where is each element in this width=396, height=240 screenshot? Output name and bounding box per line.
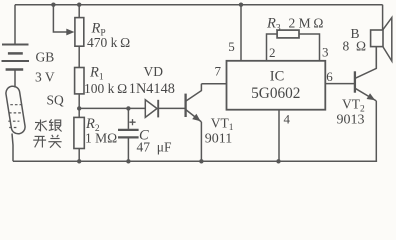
wire capacitor top lead bbox=[127, 108, 129, 128]
label kaiguan (switch) hand-drawn bbox=[33, 135, 61, 148]
wire VT2 emitter to bottom rail bbox=[375, 101, 377, 161]
svg-text:2: 2 bbox=[269, 45, 276, 60]
svg-text:R3: R3 bbox=[266, 15, 281, 33]
svg-text:5G0602: 5G0602 bbox=[251, 85, 300, 102]
transistor VT1 bbox=[186, 84, 202, 122]
wire left drop to battery bbox=[14, 5, 16, 45]
svg-text:2 M Ω: 2 M Ω bbox=[289, 15, 324, 30]
wire speaker to VT2 collector bbox=[375, 47, 377, 69]
svg-text:5: 5 bbox=[228, 39, 235, 54]
capacitor C plus sign bbox=[129, 119, 135, 125]
node A junction R1 R2 VD bbox=[77, 106, 81, 110]
node VT1 emitter ground bbox=[199, 159, 203, 163]
resistor R1 bbox=[75, 68, 84, 94]
svg-text:100 k Ω: 100 k Ω bbox=[84, 81, 127, 96]
capacitor C bbox=[118, 130, 139, 138]
svg-text:7: 7 bbox=[215, 64, 222, 79]
node pin 5 top rail bbox=[239, 2, 243, 6]
op-amp IC 5G0602 bbox=[227, 61, 326, 110]
wire top rail right drop to speaker bbox=[382, 5, 384, 30]
resistor R3 bbox=[277, 30, 299, 38]
wire R1 to node A bbox=[78, 94, 80, 109]
svg-text:R1: R1 bbox=[89, 65, 104, 83]
svg-text:3 V: 3 V bbox=[35, 70, 55, 85]
svg-text:47 μF: 47 μF bbox=[137, 140, 172, 155]
svg-text:3: 3 bbox=[322, 45, 329, 60]
svg-text:9013: 9013 bbox=[337, 112, 365, 127]
wire wiper of RP bbox=[53, 5, 67, 32]
wire VT1 emitter to bottom rail bbox=[200, 122, 202, 161]
battery GB bbox=[2, 45, 30, 70]
svg-text:VD: VD bbox=[144, 64, 164, 79]
wire RP to R1 bbox=[78, 46, 80, 67]
wire bottom rail bbox=[13, 160, 377, 162]
svg-text:4: 4 bbox=[284, 112, 291, 127]
wire top rail bbox=[15, 4, 383, 6]
wire node A to diode bbox=[79, 107, 145, 109]
wire R2 to bottom rail bbox=[78, 149, 80, 162]
mercury switch SQ bbox=[5, 85, 26, 135]
wire mercury switch to bottom rail bbox=[12, 134, 13, 162]
wire IC pin 5 to top rail bbox=[240, 5, 242, 61]
wire IC pin 2 to R3 bbox=[267, 34, 278, 61]
node R2 ground bbox=[77, 159, 81, 163]
node capacitor ground bbox=[126, 159, 130, 163]
label shuiyin (mercury) hand-drawn bbox=[35, 119, 62, 131]
resistor RP bbox=[75, 18, 84, 47]
svg-text:1 MΩ: 1 MΩ bbox=[85, 131, 117, 146]
wire diode to VT1 base bbox=[158, 107, 185, 109]
wire R3 to IC pin 3 bbox=[299, 34, 320, 61]
speaker B bbox=[371, 18, 392, 62]
wire VT1 collector to IC pin 7 bbox=[201, 83, 226, 85]
wire IC pin 6 to VT2 base bbox=[325, 83, 355, 85]
svg-text:GB: GB bbox=[36, 49, 55, 64]
svg-text:9011: 9011 bbox=[205, 131, 232, 146]
node top rail RP top bbox=[77, 2, 81, 6]
wire capacitor to bottom rail bbox=[127, 139, 129, 162]
transistor VT2 bbox=[355, 47, 376, 101]
node pin 4 ground bbox=[276, 159, 280, 163]
node top rail wiper tap bbox=[51, 2, 55, 6]
wire RP top lead bbox=[78, 5, 80, 18]
diode VD bbox=[145, 100, 158, 118]
wire battery to mercury switch bbox=[14, 70, 16, 88]
arrow wiper into RP bbox=[66, 29, 74, 36]
node capacitor tap bbox=[126, 106, 130, 110]
svg-text:IC: IC bbox=[270, 68, 285, 84]
wire node A to R2 bbox=[78, 108, 80, 117]
svg-text:6: 6 bbox=[326, 69, 333, 84]
svg-text:SQ: SQ bbox=[47, 93, 65, 108]
svg-text:1N4148: 1N4148 bbox=[129, 81, 175, 97]
svg-text:470 k Ω: 470 k Ω bbox=[87, 35, 130, 50]
svg-text:8 Ω: 8 Ω bbox=[343, 39, 367, 54]
resistor R2 bbox=[74, 117, 84, 148]
wire IC pin 4 to bottom rail bbox=[278, 110, 280, 162]
